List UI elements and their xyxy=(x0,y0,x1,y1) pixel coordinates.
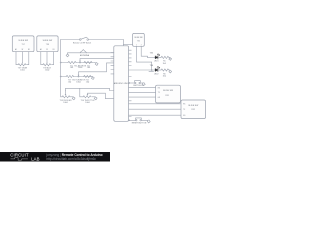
footer logo xyxy=(10,152,39,161)
antenna L1 xyxy=(80,50,87,53)
potentiometer P4 xyxy=(83,94,91,98)
svg-text:10kΩ: 10kΩ xyxy=(63,102,68,104)
svg-text:SLIDE SW: SLIDE SW xyxy=(43,40,53,42)
wire U3 pin1 xyxy=(137,46,152,70)
svg-text:LAB: LAB xyxy=(31,156,39,161)
svg-text:10kΩ: 10kΩ xyxy=(45,69,50,71)
wire reset row xyxy=(129,119,136,121)
svg-text:CIRCUIT: CIRCUIT xyxy=(10,152,29,157)
module box U4 xyxy=(156,85,181,103)
svg-text:1kΩ: 1kΩ xyxy=(70,67,74,69)
node dot row A wiper xyxy=(79,62,81,64)
text labels xyxy=(15,37,198,124)
svg-text:SLIDE SW: SLIDE SW xyxy=(188,105,198,107)
svg-text:SLIDE SW: SLIDE SW xyxy=(163,90,173,92)
node flag row2 xyxy=(169,70,172,73)
potentiometer P2 xyxy=(43,62,51,66)
wire row2 to LED xyxy=(149,70,154,72)
svg-text:ARDUINO UNO: ARDUINO UNO xyxy=(114,82,129,85)
svg-text:B1: B1 xyxy=(53,49,55,51)
wire H1 P3 wiper to chip xyxy=(66,88,114,90)
svg-text:10kΩ: 10kΩ xyxy=(78,67,83,69)
wire row B xyxy=(61,76,91,78)
wire chip to U5 pin3 xyxy=(129,114,181,116)
svg-text:1kΩ: 1kΩ xyxy=(163,75,167,77)
wire RF to chip top xyxy=(122,40,124,46)
resistor R1 xyxy=(68,61,76,63)
node dot row B wiper xyxy=(78,76,80,78)
svg-text:TX5: TX5 xyxy=(150,53,153,55)
wire H2 P4 wiper to chip xyxy=(88,93,114,99)
switch S1 xyxy=(80,37,89,40)
wire chip to U5 pin2 xyxy=(129,108,181,110)
wire row C left xyxy=(61,96,62,98)
wire switch row xyxy=(129,82,135,84)
svg-text:LED2: LED2 xyxy=(154,73,159,75)
node flag S3 xyxy=(147,120,150,123)
resistor R4 xyxy=(84,75,91,77)
switch S3 reset pushbutton xyxy=(136,118,142,121)
svg-text:10kΩ: 10kΩ xyxy=(76,81,81,83)
wire U2 pin2 wiper xyxy=(46,52,48,63)
wire chip to U5 pin1 xyxy=(129,103,181,105)
svg-text:ANTENNA: ANTENNA xyxy=(80,54,90,57)
chip right pin ticks xyxy=(129,50,132,116)
svg-text:1kΩ: 1kΩ xyxy=(86,81,90,83)
wire U1 pin2 wiper xyxy=(21,52,23,63)
wire chip to U4 pin3 xyxy=(129,96,156,98)
module box U5 xyxy=(181,100,206,119)
led LED1 xyxy=(155,54,162,59)
node flag S2 xyxy=(142,83,145,86)
joystick box U1 xyxy=(12,36,34,52)
wire row A wiper to chip xyxy=(80,59,114,61)
svg-text:10kΩ: 10kΩ xyxy=(20,69,25,71)
svg-text:TX6: TX6 xyxy=(150,65,153,67)
svg-text:RESET BUTTON: RESET BUTTON xyxy=(132,122,147,124)
svg-text:RX2: RX2 xyxy=(191,109,195,111)
joystick box U2 xyxy=(37,36,58,52)
wire LED row1 xyxy=(129,69,155,71)
node dot row B rail xyxy=(60,76,62,78)
wire S3 to flag xyxy=(141,119,147,121)
svg-text:1kΩ: 1kΩ xyxy=(87,67,91,69)
led LED2 xyxy=(155,67,162,72)
svg-text:SLIDE SW: SLIDE SW xyxy=(134,37,142,39)
potentiometer P1 xyxy=(18,62,26,66)
svg-text:RX1: RX1 xyxy=(165,95,169,97)
wire S2 to flag xyxy=(140,82,142,84)
svg-text:1kΩ: 1kΩ xyxy=(163,63,167,65)
Arduino chip U6 xyxy=(114,46,129,122)
wire row B wiper to chip xyxy=(79,63,114,75)
wire H1 drop to P4 xyxy=(80,88,83,97)
wire left rail xyxy=(60,40,62,97)
svg-text:10kΩ: 10kΩ xyxy=(85,102,90,104)
node flag row A xyxy=(94,62,96,64)
svg-text:http://circuitlab.com/c/8c3dsd: http://circuitlab.com/c/8c3dsdtjfm6c xyxy=(46,157,96,161)
wire U1 pin1 xyxy=(16,52,18,65)
wire chip to U4 pin1 xyxy=(129,87,156,89)
footer project text xyxy=(45,153,102,161)
node flag P3 xyxy=(72,97,75,100)
wire U3 pin2 xyxy=(141,46,147,57)
wire RF row xyxy=(61,39,124,41)
svg-text:SWITCH S2: SWITCH S2 xyxy=(133,85,143,87)
resistor R2 xyxy=(84,61,92,63)
node flag row B xyxy=(91,76,92,78)
svg-text:LED1: LED1 xyxy=(154,61,159,63)
node flag P4 xyxy=(94,97,97,100)
potentiometer P3 xyxy=(62,91,70,98)
wire U1 pin3 xyxy=(27,52,29,65)
wire row A xyxy=(61,62,95,64)
resistor R6 xyxy=(161,69,170,71)
svg-text:Remote Ctrl RF Switch: Remote Ctrl RF Switch xyxy=(73,41,91,44)
resistor R3 xyxy=(66,75,73,77)
resistor R5 xyxy=(161,56,170,58)
wire U2 pin3 xyxy=(52,52,54,65)
svg-text:SLIDE SW: SLIDE SW xyxy=(18,40,28,42)
node flag ANT xyxy=(66,54,69,57)
wire P4 to flag xyxy=(92,96,95,98)
wire U2 pin1 xyxy=(41,52,43,65)
node flag row1 xyxy=(169,58,172,61)
wire P3 to flag xyxy=(70,96,73,98)
footer bar xyxy=(0,152,110,162)
wire chip to U4 pin2 xyxy=(129,91,156,93)
wire RF branch to U3 xyxy=(123,44,132,46)
svg-text:TX7: TX7 xyxy=(22,44,25,46)
wire ANT row xyxy=(68,53,114,54)
svg-text:1kΩ: 1kΩ xyxy=(68,81,72,83)
svg-text:TX8: TX8 xyxy=(46,44,49,46)
wire row1 to LED xyxy=(148,56,155,58)
svg-text:TX5: TX5 xyxy=(137,41,140,43)
svg-text:B1: B1 xyxy=(28,49,30,51)
switch S2 pushbutton xyxy=(135,81,141,84)
slide box U3 xyxy=(133,33,145,46)
chip left pin ticks xyxy=(111,53,114,74)
node dot row A rail xyxy=(60,62,62,64)
